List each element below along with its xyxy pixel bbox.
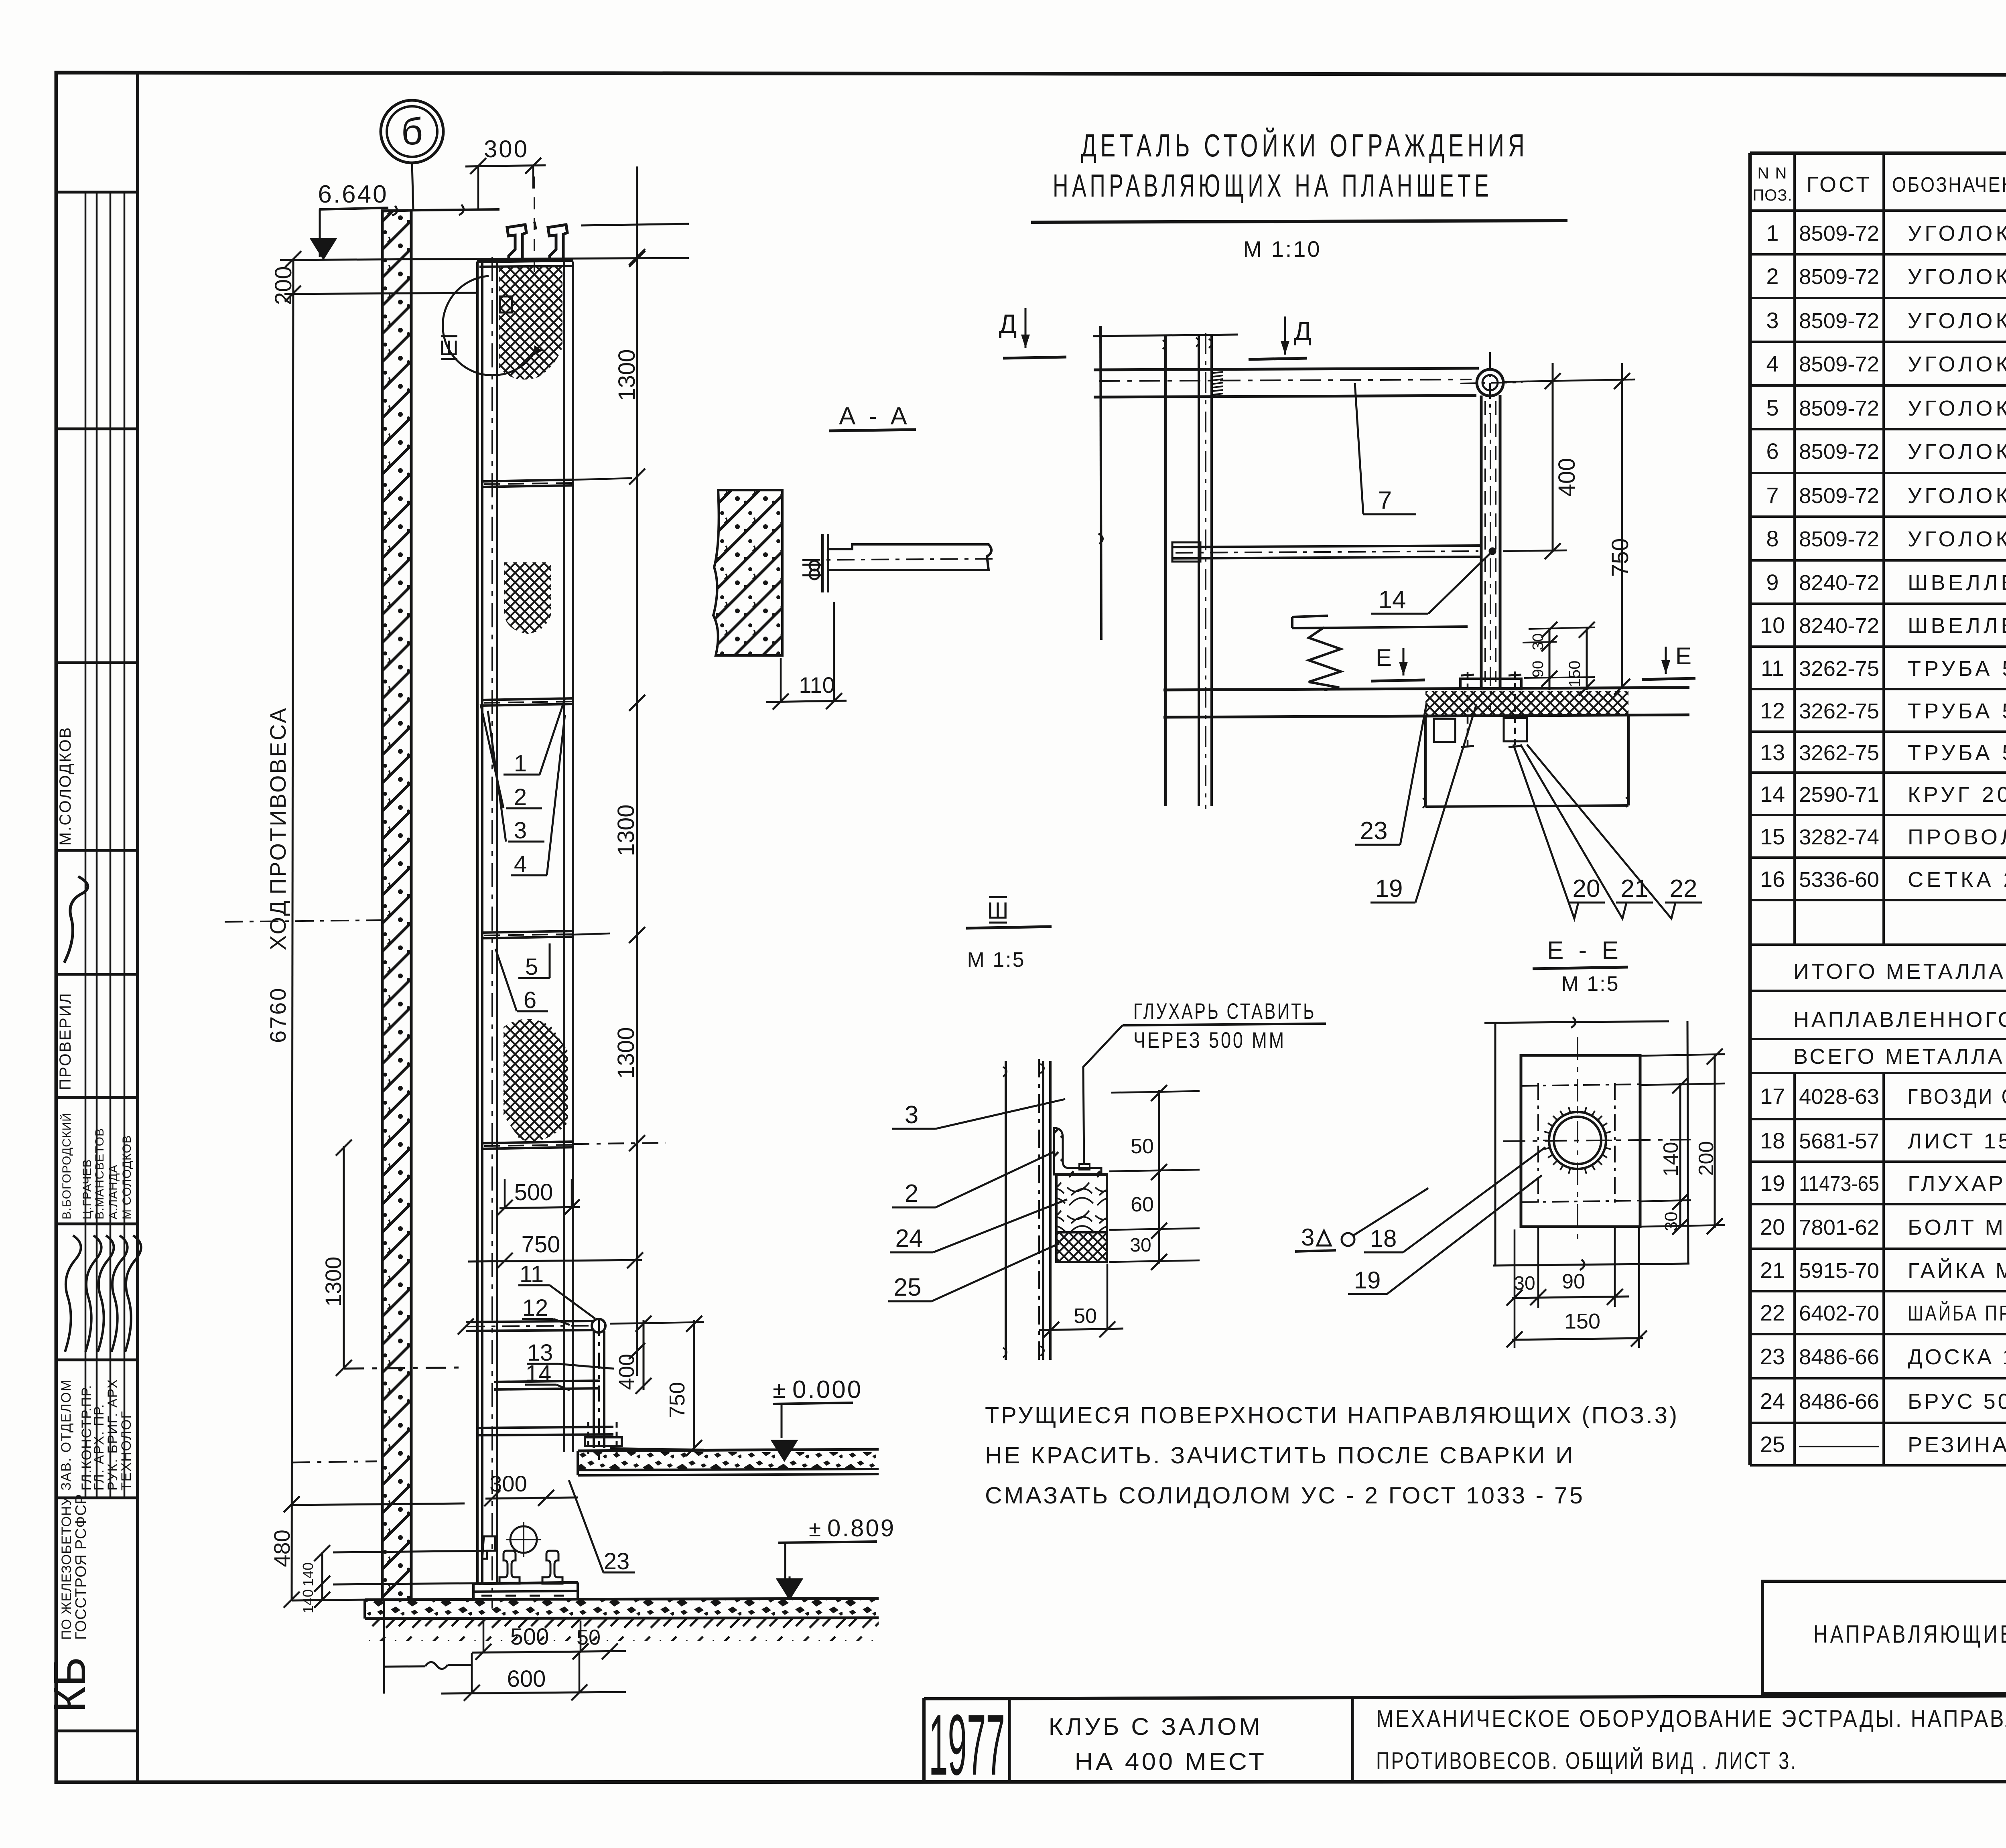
svg-text:300: 300: [489, 1471, 527, 1496]
svg-text:11473-65: 11473-65: [1799, 1172, 1879, 1196]
svg-text:УГОЛОК 50×5: УГОЛОК 50×5: [1908, 352, 2006, 376]
svg-text:НА 400 МЕСТ: НА 400 МЕСТ: [1075, 1748, 1267, 1775]
III rubber poz25: [1056, 1232, 1107, 1262]
svg-text:ПОЗ.: ПОЗ.: [1752, 187, 1792, 204]
dim 200: [284, 293, 477, 294]
table rows 17-25 grid: [1750, 1118, 2006, 1120]
svg-text:2: 2: [1766, 264, 1779, 289]
III wood block poz24: [1056, 1175, 1107, 1232]
planshet floor in detail: [1163, 688, 1689, 690]
svg-text:2590-71: 2590-71: [1799, 783, 1879, 807]
svg-text:М 1:5: М 1:5: [1561, 972, 1619, 996]
svg-text:14: 14: [526, 1361, 552, 1387]
svg-text:3262-75: 3262-75: [1799, 741, 1879, 765]
svg-text:УГОЛОК 50×5: УГОЛОК 50×5: [1908, 440, 2006, 464]
guide left chord: [476, 262, 479, 1585]
svg-text:РЕЗИНА 30×50: РЕЗИНА 30×50: [1908, 1433, 2006, 1457]
svg-text:8486-66: 8486-66: [1799, 1390, 1879, 1414]
svg-text:2: 2: [514, 784, 527, 810]
top rail tube: [1094, 368, 1479, 370]
svg-text:ГВОЗДИ СТРОИТ. 3,5×90: ГВОЗДИ СТРОИТ. 3,5×90: [1908, 1085, 2006, 1109]
title underline: [1031, 221, 1567, 222]
svg-text:23: 23: [604, 1548, 630, 1574]
svg-text:М.СОЛОДКОВ: М.СОЛОДКОВ: [57, 726, 74, 846]
svg-text:500: 500: [514, 1179, 553, 1205]
svg-text:140: 140: [1659, 1142, 1683, 1177]
svg-text:20: 20: [1573, 875, 1600, 903]
svg-text:13: 13: [1760, 740, 1785, 765]
svg-text:8509-72: 8509-72: [1799, 440, 1879, 464]
svg-text:1300: 1300: [613, 1027, 639, 1079]
guide breaks: [1163, 338, 1212, 349]
svg-text:4: 4: [514, 851, 527, 877]
pit floor slab: [365, 1600, 879, 1618]
rail profiles on top: [507, 225, 526, 260]
corner circle lower: [592, 1319, 605, 1333]
svg-text:8: 8: [1766, 526, 1779, 551]
svg-text:НАПРАВЛЯЮЩИХ НА ПЛАНШЕТЕ: НАПРАВЛЯЮЩИХ НА ПЛАНШЕТЕ: [1053, 168, 1492, 203]
III glukhar screw: [1079, 1164, 1090, 1170]
materials table grid: [1750, 152, 2006, 155]
section mark D right: [1284, 316, 1286, 355]
III bent plate poz2: [1054, 1128, 1101, 1175]
svg-text:11: 11: [1761, 655, 1784, 681]
pit base channel: [473, 1582, 578, 1584]
A-A bracket bar: [828, 544, 991, 570]
svg-text:±: ±: [773, 1377, 786, 1403]
svg-text:60: 60: [1131, 1193, 1154, 1216]
lower 1300 dim: [343, 1146, 345, 1369]
svg-text:ВСЕГО МЕТАЛЛА: ВСЕГО МЕТАЛЛА: [1793, 1045, 2005, 1069]
svg-text:5336-60: 5336-60: [1799, 868, 1879, 892]
svg-text:ШВЕЛЛЕР 14: ШВЕЛЛЕР 14: [1908, 571, 2006, 595]
A-A bracket plate: [821, 534, 824, 592]
svg-text:1300: 1300: [321, 1257, 346, 1307]
svg-text:Ш: Ш: [439, 337, 459, 360]
svg-text:23: 23: [1760, 1344, 1785, 1369]
svg-text:ТРУБА 50: ТРУБА 50: [1908, 699, 2006, 723]
svg-text:0.000: 0.000: [792, 1376, 863, 1404]
svg-text:СМАЗАТЬ СОЛИДОЛОМ УС - 2: СМАЗАТЬ СОЛИДОЛОМ УС - 2 ГОСТ 1033 - 75: [985, 1483, 1585, 1509]
left main dim line: [292, 259, 293, 1601]
svg-text:РУК. БРИГ. АРХ: РУК. БРИГ. АРХ: [105, 1379, 120, 1491]
svg-text:23: 23: [1360, 817, 1388, 845]
dim 400 detail: [1552, 363, 1554, 552]
svg-text:УГОЛОК 50×5: УГОЛОК 50×5: [1908, 265, 2006, 289]
svg-text:6: 6: [1766, 438, 1779, 464]
corner joint circle: [1477, 369, 1503, 396]
svg-text:400: 400: [1554, 458, 1580, 497]
guide inner line: [496, 262, 498, 1584]
svg-text:ДОСКА 15×20: ДОСКА 15×20: [1908, 1345, 2006, 1369]
svg-text:N N: N N: [1758, 164, 1788, 182]
stamp sub-column lines: [85, 192, 87, 1498]
svg-text:БРУС 50×60: БРУС 50×60: [1908, 1390, 2006, 1414]
svg-text:УГОЛОК 50×5: УГОЛОК 50×5: [1908, 484, 2006, 508]
svg-text:400: 400: [615, 1354, 639, 1390]
svg-text:8509-72: 8509-72: [1799, 352, 1879, 376]
svg-text:8509-72: 8509-72: [1799, 221, 1879, 245]
svg-text:3: 3: [1766, 308, 1779, 333]
dim 400 rotated lower: [643, 1320, 645, 1390]
svg-text:500: 500: [510, 1624, 549, 1650]
A-A bracket pin: [810, 561, 819, 570]
A-A wall patch: [713, 490, 782, 655]
svg-text:9: 9: [1766, 570, 1779, 595]
svg-text:8486-66: 8486-66: [1799, 1345, 1879, 1369]
small dims 30 90 150 at foot: [1549, 628, 1551, 690]
svg-text:15: 15: [1760, 824, 1785, 849]
svg-text:25: 25: [894, 1274, 922, 1301]
svg-text:20: 20: [1760, 1214, 1785, 1239]
svg-text:УГОЛОК 50×5: УГОЛОК 50×5: [1908, 221, 2006, 245]
III dims 50 60 30: [1158, 1090, 1160, 1264]
stoika lower post: [593, 1331, 595, 1448]
stand post: [1480, 396, 1483, 689]
svg-text:200: 200: [1695, 1141, 1718, 1176]
svg-text:12: 12: [1760, 698, 1785, 723]
svg-text:ПРОТИВОВЕСОВ. ОБЩИЙ ВИД .: ПРОТИВОВЕСОВ. ОБЩИЙ ВИД . ЛИСТ 3.: [1376, 1747, 1797, 1774]
svg-text:УГОЛОК 50×5: УГОЛОК 50×5: [1908, 527, 2006, 551]
svg-text:22: 22: [1670, 875, 1697, 903]
svg-text:90: 90: [1562, 1270, 1585, 1293]
ground hatch under pit: [369, 1619, 879, 1641]
right dim line 1300 chain: [636, 166, 638, 1376]
svg-text:НАПЛАВЛЕННОГО МЕТАЛЛА: НАПЛАВЛЕННОГО МЕТАЛЛА: [1793, 1008, 2006, 1032]
svg-text:ТРУЩИЕСЯ ПОВЕРХНОСТИ НАП: ТРУЩИЕСЯ ПОВЕРХНОСТИ НАПРАВЛЯЮЩИХ (ПОЗ.3…: [985, 1402, 1679, 1428]
svg-text:30: 30: [1661, 1212, 1681, 1231]
svg-text:480: 480: [269, 1530, 294, 1567]
stamp horizontal dividers: [56, 191, 138, 194]
wall top break: [382, 206, 411, 215]
svg-text:Е: Е: [1376, 644, 1392, 671]
svg-text:ГЛУХАРЬ СТАВИТЬ: ГЛУХАРЬ СТАВИТЬ: [1133, 998, 1316, 1024]
mid rail: [1172, 546, 1481, 547]
guides of D-view: [1164, 336, 1167, 806]
guide shoe: [482, 1536, 495, 1559]
post foot plate: [585, 1437, 622, 1446]
level 6.640 horizontal line: [280, 258, 689, 260]
floor joist box below: [1424, 717, 1427, 807]
svg-text:0.809: 0.809: [827, 1515, 895, 1542]
svg-text:ШАЙБА ПРУЖИН - 8.651.01: ШАЙБА ПРУЖИН - 8.651.01: [1908, 1301, 2006, 1325]
E-E plate rect: [1521, 1055, 1640, 1227]
svg-text:30: 30: [1130, 1235, 1151, 1256]
dim 750 detail: [1621, 363, 1623, 689]
svg-text:ХОД: ХОД: [265, 899, 290, 950]
svg-text:22: 22: [1760, 1300, 1785, 1325]
svg-text:3: 3: [514, 818, 527, 844]
svg-text:ЗАВ. ОТДЕЛОМ: ЗАВ. ОТДЕЛОМ: [59, 1379, 74, 1491]
dim 750 rotated lower: [693, 1320, 695, 1451]
svg-text:ГЛУХАРЬ М12× 60.01: ГЛУХАРЬ М12× 60.01: [1908, 1172, 2006, 1196]
guide through pit rails: [499, 1551, 520, 1584]
svg-text:14: 14: [1379, 586, 1406, 614]
svg-text:8240-72: 8240-72: [1799, 571, 1879, 595]
extension to planshet: [292, 1461, 377, 1463]
weld marks at rail end: [1213, 372, 1223, 373]
section mark E right: [1665, 647, 1667, 674]
svg-text:НАПРАВЛЯЮЩИЕ ПРОТИВОВЕСОВ: НАПРАВЛЯЮЩИЕ ПРОТИВОВЕСОВ: [1813, 1621, 2006, 1648]
svg-text:7: 7: [1378, 487, 1392, 514]
svg-text:БОЛТ М8 × 100.36.01: БОЛТ М8 × 100.36.01: [1908, 1215, 2006, 1239]
svg-text:24: 24: [1760, 1388, 1785, 1414]
svg-text:1: 1: [514, 751, 527, 777]
svg-text:Ц.ГРАЧЕВ: Ц.ГРАЧЕВ: [81, 1159, 94, 1219]
svg-text:ГЛ. АРХ. ПР.: ГЛ. АРХ. ПР.: [91, 1404, 107, 1491]
svg-text:±: ±: [809, 1516, 821, 1541]
counterweight hatch low: [504, 1019, 568, 1141]
concrete wall hatched: [382, 211, 411, 1598]
svg-text:16: 16: [1760, 866, 1785, 892]
svg-text:КБ: КБ: [45, 1657, 95, 1713]
svg-text:А - А: А - А: [839, 402, 910, 430]
lower mid rail: [494, 1381, 600, 1382]
svg-text:6402-70: 6402-70: [1799, 1301, 1879, 1325]
svg-text:ГАЙКА М8.5.01: ГАЙКА М8.5.01: [1908, 1258, 2006, 1283]
svg-text:ТРУБА 50: ТРУБА 50: [1908, 741, 2006, 765]
svg-text:150: 150: [1566, 661, 1584, 688]
svg-text:150: 150: [1564, 1309, 1600, 1333]
svg-text:б: б: [401, 110, 423, 153]
wood blocks under floor: [1434, 719, 1455, 742]
svg-text:19: 19: [1760, 1170, 1785, 1196]
svg-text:10: 10: [1760, 613, 1785, 638]
E-E weld circle with teeth: [1554, 1117, 1601, 1164]
guide top cap plate: [477, 260, 573, 262]
svg-text:6760: 6760: [265, 986, 290, 1043]
svg-text:11: 11: [520, 1261, 544, 1287]
svg-text:ОБОЗНАЧЕНИЕ МАТЕРИАЛА: ОБОЗНАЧЕНИЕ МАТЕРИАЛА: [1892, 173, 2006, 197]
svg-text:1300: 1300: [613, 804, 639, 856]
dim 300 top: [465, 165, 546, 166]
svg-text:ЧЕРЕЗ 500 ММ: ЧЕРЕЗ 500 ММ: [1133, 1027, 1286, 1053]
E-E dims right: [1679, 1083, 1681, 1228]
svg-text:4028-63: 4028-63: [1799, 1085, 1879, 1109]
bottom strip boxes: [924, 1694, 2006, 1699]
svg-text:Е: Е: [1675, 643, 1691, 669]
svg-text:ЛИСТ 150× 200×4: ЛИСТ 150× 200×4: [1908, 1129, 2006, 1153]
svg-text:УГОЛОК 40×4: УГОЛОК 40×4: [1908, 309, 2006, 333]
svg-text:Ш: Ш: [987, 898, 1008, 924]
svg-text:Е - Е: Е - Е: [1547, 937, 1622, 964]
svg-text:А.ЛАНДА: А.ЛАНДА: [107, 1164, 120, 1219]
black dot node: [1489, 548, 1496, 555]
svg-text:21: 21: [1621, 875, 1649, 903]
guide centerline dashed: [491, 257, 493, 1609]
svg-text:5681-57: 5681-57: [1799, 1129, 1879, 1153]
E-E dims bottom: [1512, 1296, 1629, 1298]
svg-text:19: 19: [1375, 875, 1403, 903]
svg-text:21: 21: [1760, 1258, 1785, 1283]
spring support line: [1292, 627, 1468, 628]
svg-text:3262-75: 3262-75: [1799, 699, 1879, 723]
svg-text:19: 19: [1354, 1267, 1381, 1294]
stamp signature sud: [64, 876, 88, 963]
svg-text:8509-72: 8509-72: [1799, 265, 1879, 289]
svg-text:300: 300: [484, 136, 529, 162]
E-E top extension break lines: [1484, 1021, 1669, 1023]
svg-text:М СОЛОДКОВ: М СОЛОДКОВ: [120, 1135, 134, 1220]
svg-text:18: 18: [1370, 1225, 1397, 1252]
svg-text:110: 110: [799, 672, 834, 698]
guide right chord: [563, 262, 565, 1452]
svg-text:50: 50: [1131, 1135, 1154, 1158]
svg-text:18: 18: [1760, 1128, 1785, 1153]
svg-text:НЕ КРАСИТЬ. ЗАЧИСТИТЬ П: НЕ КРАСИТЬ. ЗАЧИСТИТЬ ПОСЛЕ СВАРКИ И: [985, 1442, 1575, 1469]
mid dashdot extension: [225, 920, 381, 922]
svg-text:ПРОВЕРИЛ: ПРОВЕРИЛ: [57, 992, 74, 1090]
svg-text:ПРОТИВОВЕСА: ПРОТИВОВЕСА: [265, 706, 290, 895]
svg-text:5915-70: 5915-70: [1799, 1259, 1879, 1283]
III guide strip: [1005, 1061, 1007, 1360]
hoist axis dashed: [534, 176, 535, 281]
cross members: [482, 480, 573, 481]
svg-text:6.640: 6.640: [318, 181, 388, 208]
table itogo rows: [1750, 990, 2006, 992]
post foot flange: [1460, 679, 1521, 689]
counterweight hatch mid: [504, 562, 551, 634]
stamp column divider: [136, 73, 139, 1782]
E-E center lines: [1503, 1140, 1691, 1141]
svg-text:30: 30: [1514, 1273, 1535, 1294]
svg-text:8509-72: 8509-72: [1799, 527, 1879, 551]
svg-text:ГОССТРОЯ РСФСР: ГОССТРОЯ РСФСР: [73, 1494, 89, 1640]
svg-text:2: 2: [905, 1180, 918, 1207]
svg-text:8509-72: 8509-72: [1799, 309, 1879, 333]
svg-text:М 1:10: М 1:10: [1243, 236, 1321, 262]
axis circle b: [381, 100, 443, 163]
svg-text:4: 4: [1766, 351, 1779, 376]
extension lines right: [573, 478, 632, 480]
svg-text:140: 140: [300, 1589, 316, 1613]
svg-text:В.МАНСВЕТОВ: В.МАНСВЕТОВ: [93, 1128, 106, 1219]
svg-text:ШВЕЛЛЕР 14: ШВЕЛЛЕР 14: [1908, 614, 2006, 638]
wall line extension below: [383, 1598, 385, 1694]
svg-text:ДЕТАЛЬ СТОЙКИ ОГРАЖДЕНИЯ: ДЕТАЛЬ СТОЙКИ ОГРАЖДЕНИЯ: [1081, 127, 1529, 163]
svg-text:ТЕХНОЛОГ: ТЕХНОЛОГ: [119, 1410, 134, 1491]
callout circle III: [443, 276, 537, 375]
svg-text:17: 17: [1760, 1083, 1785, 1109]
svg-text:—: —: [1799, 1433, 1879, 1457]
svg-text:3282-74: 3282-74: [1799, 825, 1879, 849]
svg-text:750: 750: [665, 1382, 689, 1418]
title block box: [1762, 1581, 2006, 1694]
svg-text:УГОЛОК 50×5: УГОЛОК 50×5: [1908, 396, 2006, 420]
svg-text:5: 5: [1766, 395, 1779, 420]
svg-text:8509-72: 8509-72: [1799, 396, 1879, 420]
svg-text:25: 25: [1760, 1432, 1785, 1457]
wall reference line: [1100, 326, 1101, 640]
svg-text:750: 750: [1607, 538, 1633, 577]
svg-text:ПО ЖЕЛЕЗОБЕТОНУ: ПО ЖЕЛЕЗОБЕТОНУ: [59, 1497, 74, 1640]
planshet floor right: [578, 1449, 879, 1451]
dim 480 and 140s: [292, 1503, 465, 1505]
circle small detail at rail: [510, 1526, 537, 1553]
stamp signatures scribbles: [65, 1235, 81, 1352]
svg-text:ИТОГО МЕТАЛЛА: ИТОГО МЕТАЛЛА: [1793, 959, 2006, 984]
svg-text:14: 14: [1760, 781, 1785, 807]
svg-text:1300: 1300: [614, 349, 640, 401]
axis leader line: [412, 163, 413, 210]
planshet top line 6.640: [381, 209, 499, 211]
svg-text:12: 12: [522, 1295, 548, 1321]
svg-text:5: 5: [525, 954, 538, 980]
svg-text:750: 750: [522, 1231, 560, 1258]
svg-text:В.БОГОРОДСКИЙ: В.БОГОРОДСКИЙ: [60, 1112, 73, 1219]
svg-text:Д: Д: [1294, 316, 1312, 346]
svg-text:М 1:5: М 1:5: [967, 948, 1025, 972]
svg-text:ГОСТ: ГОСТ: [1807, 172, 1872, 197]
lower low rail: [476, 1427, 613, 1428]
svg-text:1: 1: [1766, 220, 1779, 245]
svg-text:СЕТКА 20- 1.6: СЕТКА 20- 1.6: [1908, 868, 2006, 892]
svg-text:ПРОВОЛОКА 6: ПРОВОЛОКА 6: [1908, 825, 2006, 849]
svg-text:3: 3: [1301, 1224, 1314, 1251]
svg-text:24: 24: [895, 1225, 923, 1252]
svg-text:КРУГ 20: КРУГ 20: [1908, 783, 2006, 807]
counterweight hatch top: [499, 267, 562, 379]
svg-text:7: 7: [1766, 483, 1779, 508]
svg-text:8240-72: 8240-72: [1799, 614, 1879, 638]
svg-text:90: 90: [1530, 661, 1547, 678]
svg-text:1977: 1977: [929, 1696, 1005, 1793]
svg-text:3: 3: [905, 1101, 918, 1129]
svg-text:МЕХАНИЧЕСКОЕ ОБОРУДОВАНИЕ: МЕХАНИЧЕСКОЕ ОБОРУДОВАНИЕ ЭСТРАДЫ. НАПРА…: [1376, 1705, 2006, 1732]
lower railing top rail: [466, 1321, 593, 1322]
svg-text:Д: Д: [999, 309, 1017, 339]
spring symbol: [1309, 627, 1341, 690]
svg-text:7801-62: 7801-62: [1799, 1215, 1879, 1239]
svg-text:50: 50: [1074, 1304, 1097, 1328]
small clamp on chord: [500, 296, 512, 312]
svg-text:ТРУБА 50: ТРУБА 50: [1908, 657, 2006, 681]
top extension line: [1093, 335, 1238, 336]
svg-text:140: 140: [300, 1562, 316, 1586]
svg-text:8509-72: 8509-72: [1799, 484, 1879, 508]
svg-text:6: 6: [524, 987, 536, 1013]
svg-text:3262-75: 3262-75: [1799, 657, 1879, 681]
svg-text:КЛУБ С ЗАЛОМ: КЛУБ С ЗАЛОМ: [1049, 1713, 1263, 1740]
level 6.640 mark: [319, 209, 321, 257]
svg-text:600: 600: [507, 1666, 546, 1692]
svg-text:200: 200: [270, 266, 296, 305]
